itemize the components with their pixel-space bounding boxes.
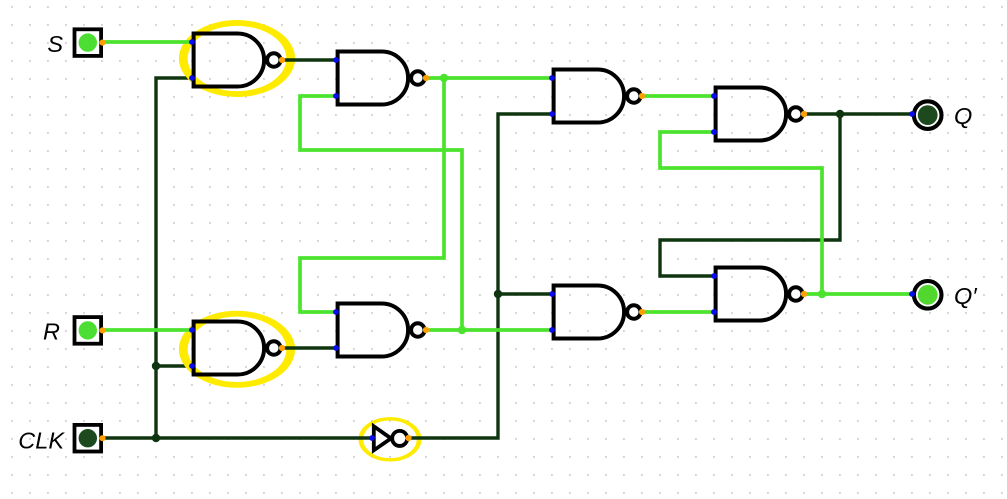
- output pin Q: [914, 101, 942, 129]
- port pin CLK output: [99, 435, 105, 441]
- port U3 output: [639, 93, 645, 99]
- wire pin R to gate U5 upper input: [102, 328, 192, 332]
- port U1 output: [279, 57, 285, 63]
- wire gate U6 output feedback to gate U2 lower input: [300, 96, 462, 330]
- port U8 input B: [711, 309, 717, 315]
- junction node at CLK and U5 stub: [152, 362, 160, 370]
- svg-text:Q: Q: [954, 103, 972, 129]
- port U2 input B: [333, 93, 339, 99]
- junction node at CLK riser base: [152, 434, 160, 442]
- svg-text:Q′: Q′: [954, 283, 978, 309]
- port U2 output: [423, 75, 429, 81]
- input pin CLK: [75, 425, 102, 452]
- port U7 input B: [549, 327, 555, 333]
- port U1 input A: [189, 39, 195, 45]
- NAND gate U2: [338, 52, 425, 105]
- wire Q feedback to gate U8 upper input: [660, 114, 840, 276]
- input pin R: [75, 317, 102, 344]
- port U4 input B: [711, 129, 717, 135]
- wire gate U6 output to gate U7 lower input: [426, 328, 552, 332]
- port U4 input A: [711, 93, 717, 99]
- NAND gate U6: [338, 304, 425, 357]
- port pin Q' input: [909, 291, 915, 297]
- port pin Q input: [909, 111, 915, 117]
- port U8 output: [801, 291, 807, 297]
- output pin Q': [914, 281, 942, 309]
- wire CLK stub to gate U5 lower input: [156, 364, 192, 367]
- port U3 input A: [549, 75, 555, 81]
- NAND gate U3: [554, 70, 641, 123]
- port U6 input A: [333, 309, 339, 315]
- NAND gate U5: [194, 322, 281, 375]
- input pin S: [75, 29, 102, 56]
- NAND gate U4: [716, 88, 803, 141]
- wire gate U4 output to pin Q: [804, 112, 912, 115]
- wire inverter output to column x498 up to gate U3 lower input: [408, 114, 552, 438]
- wire gate U3 output to gate U4 upper input: [642, 94, 714, 98]
- junction node at U2 output branch: [440, 74, 448, 82]
- port U5 input A: [189, 327, 195, 333]
- port U8 input A: [711, 273, 717, 279]
- junction node at Q' output branch: [818, 290, 826, 298]
- wire CLK horizontal run to inverter input: [102, 436, 372, 439]
- svg-text:S: S: [47, 31, 63, 57]
- wire gate U2 output feedback to gate U6 upper input: [300, 78, 444, 312]
- junction node at inverted clock column and U7 input: [494, 290, 502, 298]
- wire Q' feedback to gate U4 lower input: [660, 132, 822, 294]
- port U4 output: [801, 111, 807, 117]
- wire pin S to gate U1 upper input: [102, 40, 192, 44]
- junction node at Q output branch: [836, 110, 844, 118]
- wire gate U5 output to gate U6 lower input: [282, 346, 336, 349]
- port U1 input B: [189, 75, 195, 81]
- NAND gate U1: [194, 34, 281, 87]
- port U3 input B: [549, 111, 555, 117]
- port U6 output: [423, 327, 429, 333]
- port pin R output: [99, 327, 105, 333]
- selection halo around NAND gate U1: [183, 23, 290, 94]
- selection halo around NAND gate U5: [183, 314, 290, 385]
- NAND gate U8: [716, 268, 803, 321]
- port U2 input A: [333, 57, 339, 63]
- port U5 input B: [189, 363, 195, 369]
- port U7 input A: [549, 291, 555, 297]
- wire gate U8 output to pin Q': [804, 292, 912, 296]
- port U9 input: [369, 435, 375, 441]
- port U7 output: [639, 309, 645, 315]
- wire gate U7 output to gate U8 lower input: [642, 310, 714, 314]
- junction node at U6 output branch: [458, 326, 466, 334]
- NAND gate U7: [554, 286, 641, 339]
- wire gate U1 output to gate U2 upper input: [282, 58, 336, 61]
- port pin S output: [99, 40, 105, 46]
- svg-text:CLK: CLK: [18, 428, 65, 454]
- wire branch x498 to gate U7 upper input: [498, 292, 552, 295]
- port U5 output: [279, 345, 285, 351]
- port U6 input B: [333, 345, 339, 351]
- inverter U9 (clock NOT gate): [374, 426, 407, 450]
- selection halo around inverter U9: [361, 419, 419, 460]
- wire CLK vertical riser to gate U1 lower input: [156, 78, 192, 438]
- port U9 output: [405, 435, 411, 441]
- svg-text:R: R: [43, 318, 60, 344]
- wire gate U2 output to gate U3 upper input: [426, 76, 552, 80]
